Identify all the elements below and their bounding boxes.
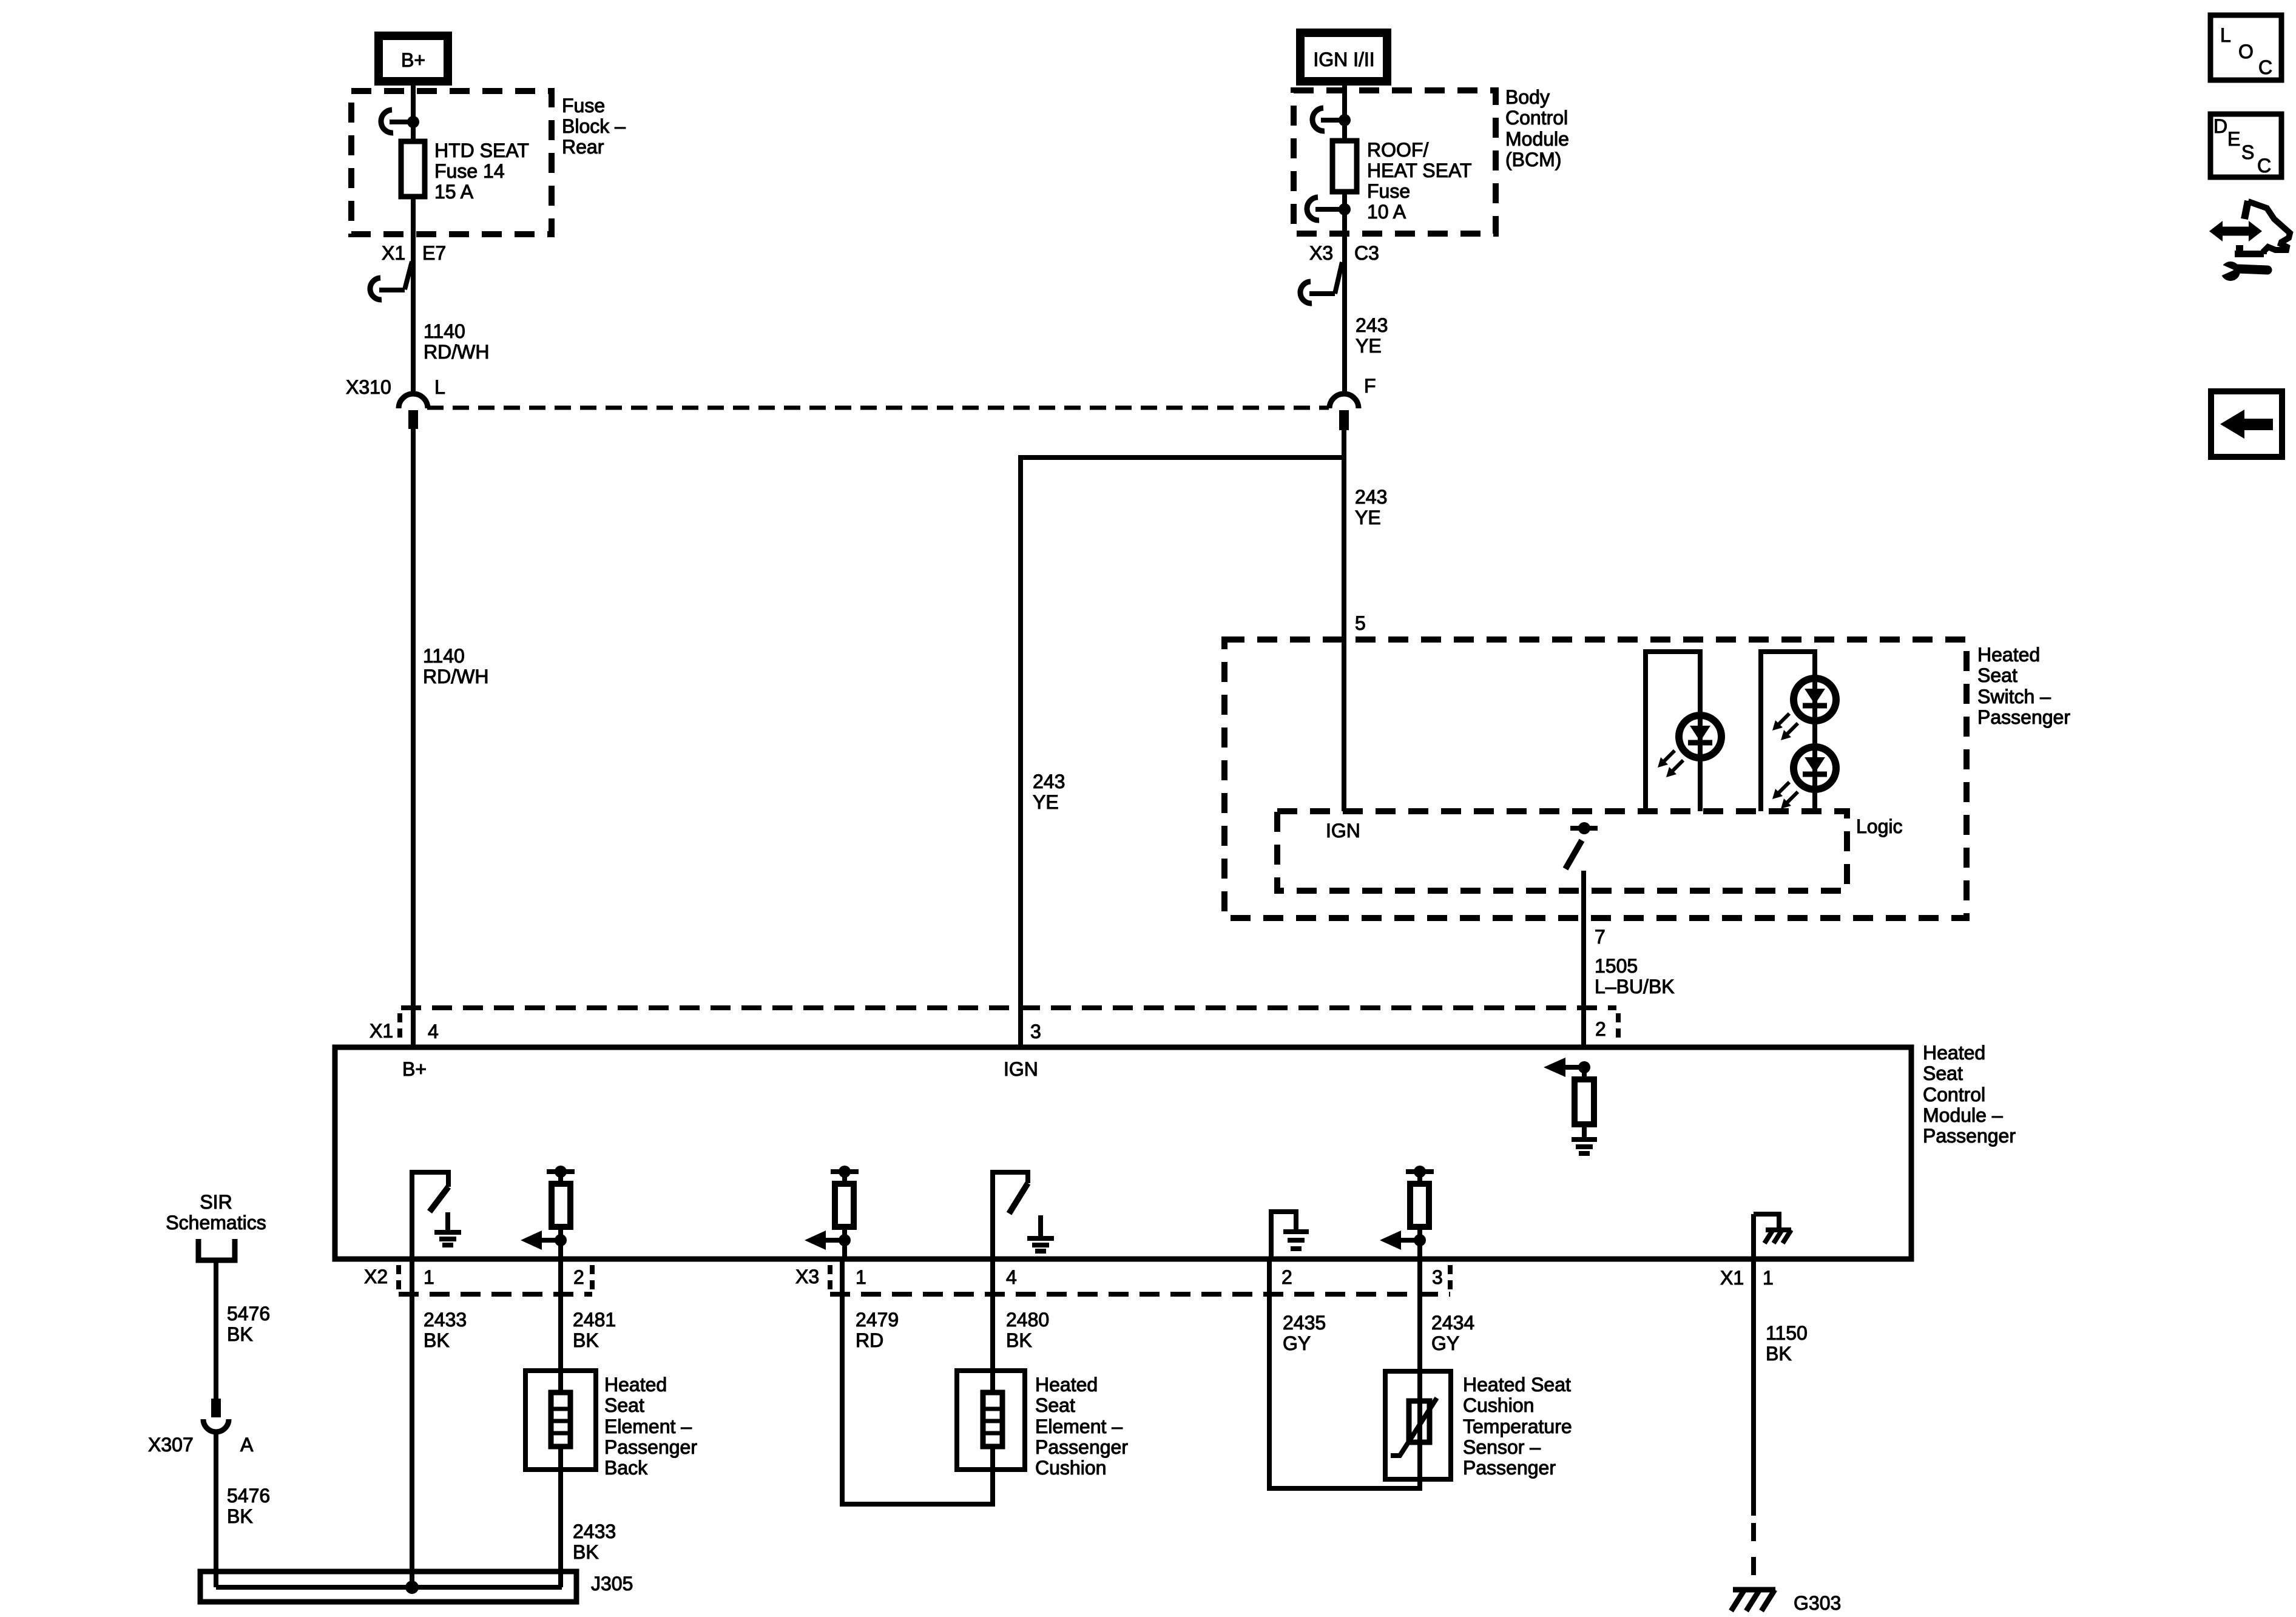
svg-text:4: 4 xyxy=(428,1021,439,1042)
svg-text:2433: 2433 xyxy=(573,1521,616,1542)
connector lead hook in fuse block xyxy=(381,110,419,133)
svg-text:Element –: Element – xyxy=(1035,1416,1123,1437)
heated seat element passenger cushion box xyxy=(957,1371,1025,1470)
svg-text:2: 2 xyxy=(1595,1018,1606,1040)
label Fuse Block - Rear xyxy=(562,95,626,158)
wire B+ to fuse block xyxy=(411,81,416,141)
svg-text:Body: Body xyxy=(1505,86,1550,108)
svg-text:HEAT SEAT: HEAT SEAT xyxy=(1367,160,1471,181)
svg-text:SIR: SIR xyxy=(200,1191,232,1213)
label Heated Seat Element - Passenger Back xyxy=(604,1374,697,1479)
wire 5476 BK upper xyxy=(214,1260,218,1399)
icon box DESC xyxy=(2210,114,2281,177)
svg-text:IGN: IGN xyxy=(1004,1058,1038,1080)
svg-text:1140: 1140 xyxy=(423,645,465,667)
svg-text:Seat: Seat xyxy=(1977,664,2017,686)
SIR bracket xyxy=(198,1239,235,1260)
wire 2480 BK xyxy=(990,1259,995,1371)
svg-text:Passenger: Passenger xyxy=(1463,1457,1556,1479)
connector X3 separator and bracket xyxy=(830,1265,1450,1294)
svg-text:1150: 1150 xyxy=(1766,1322,1808,1344)
wire label 2435 GY xyxy=(1283,1312,1326,1354)
svg-text:X1: X1 xyxy=(370,1020,393,1042)
svg-text:15 A: 15 A xyxy=(434,181,474,203)
svg-text:243: 243 xyxy=(1033,771,1065,792)
wire 1140 RD/WH down to module xyxy=(411,429,416,1045)
svg-text:2433: 2433 xyxy=(424,1309,467,1331)
svg-text:BK: BK xyxy=(227,1505,253,1527)
fuse ROOF/HEAT SEAT Fuse 10A xyxy=(1332,139,1471,223)
connector X310 L xyxy=(346,376,445,429)
connector terminal F xyxy=(1329,375,1376,430)
svg-text:Passenger: Passenger xyxy=(1923,1125,2016,1147)
icon box back-arrow xyxy=(2211,391,2282,457)
svg-text:L: L xyxy=(2220,24,2231,46)
svg-text:Control: Control xyxy=(1923,1084,1985,1106)
svg-text:BK: BK xyxy=(1766,1343,1792,1365)
svg-text:(BCM): (BCM) xyxy=(1505,149,1561,170)
svg-text:X3: X3 xyxy=(1309,242,1333,264)
logic dashed box xyxy=(1277,811,1847,891)
internal resistor to ground at pin 2 xyxy=(1544,1058,1597,1153)
svg-text:B+: B+ xyxy=(401,49,425,71)
svg-text:IGN I/II: IGN I/II xyxy=(1313,49,1374,70)
svg-text:S: S xyxy=(2241,141,2254,163)
label SIR Schematics xyxy=(166,1191,266,1234)
svg-text:5476: 5476 xyxy=(227,1303,270,1325)
svg-text:Passenger: Passenger xyxy=(1035,1436,1128,1458)
svg-text:Sensor –: Sensor – xyxy=(1463,1436,1541,1458)
svg-text:Passenger: Passenger xyxy=(1977,706,2070,728)
svg-text:2479: 2479 xyxy=(856,1309,899,1331)
svg-text:Fuse 14: Fuse 14 xyxy=(434,160,505,182)
wire element back to J305 xyxy=(558,1470,563,1587)
svg-text:2480: 2480 xyxy=(1006,1309,1049,1331)
pin row labels X1 4 3 2 xyxy=(370,1018,1606,1042)
wire pin5 inside switch xyxy=(1342,640,1346,811)
svg-text:Seat: Seat xyxy=(1923,1062,1963,1084)
svg-text:10 A: 10 A xyxy=(1367,201,1406,223)
svg-text:1: 1 xyxy=(424,1266,434,1288)
svg-text:YE: YE xyxy=(1356,335,1382,357)
internal switch to ground at pin X3-4 xyxy=(990,1170,1054,1259)
svg-text:Fuse: Fuse xyxy=(562,95,605,116)
svg-text:4: 4 xyxy=(1006,1266,1017,1288)
svg-text:Heated: Heated xyxy=(604,1374,667,1396)
wire 2481 BK xyxy=(558,1259,563,1371)
svg-text:1505: 1505 xyxy=(1595,955,1638,977)
wire 2434 GY xyxy=(1417,1259,1422,1371)
label Heated Seat Control Module - Passenger xyxy=(1923,1042,2016,1147)
wire label 2434 GY xyxy=(1431,1312,1474,1354)
wire label 243 YE upper xyxy=(1356,314,1388,357)
heated seat switch dashed box xyxy=(1224,640,1967,918)
BCM dashed box xyxy=(1294,90,1496,234)
svg-text:X3: X3 xyxy=(795,1266,819,1288)
svg-text:BK: BK xyxy=(1006,1329,1032,1351)
svg-text:F: F xyxy=(1364,375,1376,397)
svg-text:L–BU/BK: L–BU/BK xyxy=(1595,976,1675,998)
svg-text:B+: B+ xyxy=(402,1058,427,1080)
svg-text:Heated: Heated xyxy=(1035,1374,1098,1396)
svg-text:X310: X310 xyxy=(346,376,391,398)
pin label row X1 xyxy=(1720,1267,1774,1289)
wire 2479 RD xyxy=(840,1259,845,1504)
svg-text:3: 3 xyxy=(1030,1021,1041,1042)
svg-text:BK: BK xyxy=(573,1329,599,1351)
wire label 1140 RD/WH xyxy=(424,320,489,363)
wire label 1505 L-BU/BK xyxy=(1595,955,1675,998)
heated seat control module box xyxy=(335,1047,1911,1259)
svg-text:Heated: Heated xyxy=(1923,1042,1985,1064)
internal resistor with arrow at pin X3-1 xyxy=(805,1166,859,1259)
pin label row X2 xyxy=(364,1266,584,1288)
wire switch to pin 7 and module pin 2 xyxy=(1581,871,1586,1045)
wire element cushion loop to pin 1 xyxy=(842,1470,993,1504)
wire label 2479 RD xyxy=(856,1309,899,1351)
svg-text:X1: X1 xyxy=(382,242,405,264)
svg-text:Back: Back xyxy=(604,1457,648,1479)
svg-text:Logic: Logic xyxy=(1856,815,1903,837)
svg-text:Heated: Heated xyxy=(1977,644,2040,666)
icon box LOC xyxy=(2210,15,2281,80)
svg-text:Module: Module xyxy=(1505,128,1569,150)
wire label 2480 BK xyxy=(1006,1309,1049,1351)
svg-text:ROOF/: ROOF/ xyxy=(1367,139,1428,161)
fuse block dashed box Fuse Block - Rear xyxy=(351,91,552,234)
svg-text:Control: Control xyxy=(1505,107,1568,129)
svg-text:2481: 2481 xyxy=(573,1309,616,1331)
svg-text:Module –: Module – xyxy=(1923,1104,2003,1126)
svg-text:Block –: Block – xyxy=(562,115,626,137)
svg-text:O: O xyxy=(2238,41,2254,62)
heated seat element passenger back box xyxy=(525,1371,596,1470)
power node IGN I/II xyxy=(1300,33,1387,81)
svg-text:X2: X2 xyxy=(364,1266,388,1288)
svg-text:G303: G303 xyxy=(1794,1592,1841,1614)
connector X1 E7 xyxy=(370,242,446,300)
wire 243 YE from F down to switch xyxy=(1342,430,1346,640)
internal resistor with arrow at pin 2434 xyxy=(1380,1166,1434,1259)
svg-text:2: 2 xyxy=(573,1266,584,1288)
connector X307 A xyxy=(148,1399,254,1456)
svg-text:1140: 1140 xyxy=(424,320,465,342)
label Heated Seat Cushion Temperature Sensor - Passenger xyxy=(1463,1374,1572,1479)
wire label 2433 BK xyxy=(424,1309,467,1351)
wire branch to pin 3 xyxy=(1021,455,1342,1045)
wire 2433 BK xyxy=(410,1259,414,1587)
switch contact in logic box xyxy=(1565,822,1598,869)
svg-text:HTD SEAT: HTD SEAT xyxy=(434,140,529,161)
wire IGN to BCM xyxy=(1342,81,1347,141)
svg-text:YE: YE xyxy=(1355,507,1381,528)
wire label 5476 BK lower xyxy=(227,1485,270,1527)
connector X2 separator and bracket xyxy=(399,1265,592,1294)
svg-text:Switch –: Switch – xyxy=(1977,686,2051,707)
svg-text:243: 243 xyxy=(1355,486,1387,508)
label Body Control Module (BCM) xyxy=(1505,86,1569,170)
svg-text:X1: X1 xyxy=(1720,1267,1744,1289)
svg-text:X307: X307 xyxy=(148,1434,194,1456)
internal chassis ground at pin X1-1 xyxy=(1754,1212,1791,1259)
wire label 243 YE middle xyxy=(1033,771,1065,813)
svg-text:Heated Seat: Heated Seat xyxy=(1463,1374,1571,1396)
svg-text:Cushion: Cushion xyxy=(1035,1457,1106,1479)
LED indicator 3 xyxy=(1772,747,1836,809)
wire label 5476 BK upper xyxy=(227,1303,270,1345)
svg-text:Cushion: Cushion xyxy=(1463,1394,1534,1416)
svg-text:Seat: Seat xyxy=(604,1394,644,1416)
svg-text:Passenger: Passenger xyxy=(604,1436,697,1458)
wire label 1150 BK xyxy=(1766,1322,1808,1365)
svg-text:2: 2 xyxy=(1281,1266,1292,1288)
svg-text:IGN: IGN xyxy=(1326,820,1360,842)
svg-text:7: 7 xyxy=(1595,926,1606,948)
heated seat cushion temperature sensor box xyxy=(1385,1371,1451,1479)
svg-text:L: L xyxy=(434,376,445,398)
wire 2435 GY xyxy=(1267,1259,1272,1488)
svg-text:Schematics: Schematics xyxy=(166,1212,266,1234)
wire fuse to box edge xyxy=(411,197,416,394)
svg-text:Element –: Element – xyxy=(604,1416,692,1437)
svg-text:GY: GY xyxy=(1431,1332,1459,1354)
svg-text:BK: BK xyxy=(424,1329,450,1351)
svg-text:RD/WH: RD/WH xyxy=(424,341,489,363)
icon compare arrow xyxy=(2209,201,2290,257)
svg-text:5476: 5476 xyxy=(227,1485,270,1507)
harness dashed line X310 to F xyxy=(427,406,1329,410)
svg-text:5: 5 xyxy=(1355,612,1366,634)
LED indicator 2 xyxy=(1772,678,1836,740)
splice J305 xyxy=(200,1571,576,1602)
svg-text:2434: 2434 xyxy=(1431,1312,1474,1334)
icon wrench xyxy=(2213,261,2267,281)
wire fuse to box edge xyxy=(1342,192,1347,394)
wire 1150 BK xyxy=(1751,1259,1756,1516)
connector X1 separator top xyxy=(397,1013,402,1040)
label Heated Seat Element - Passenger Cushion xyxy=(1035,1374,1128,1479)
wire label 1140 RD/WH lower xyxy=(423,645,488,687)
svg-text:Seat: Seat xyxy=(1035,1394,1075,1416)
LED indicator 1 xyxy=(1658,715,1721,777)
svg-text:C3: C3 xyxy=(1354,242,1379,264)
svg-text:E7: E7 xyxy=(422,242,446,264)
svg-text:BK: BK xyxy=(227,1323,253,1345)
svg-text:C: C xyxy=(2257,155,2271,177)
wire label 2481 BK xyxy=(573,1309,616,1351)
wire 5476 BK lower xyxy=(214,1432,218,1587)
svg-text:1: 1 xyxy=(856,1266,866,1288)
connector lead hook upper in BCM xyxy=(1312,108,1351,131)
label Heated Seat Switch - Passenger xyxy=(1977,644,2070,728)
dashed wire to G303 xyxy=(1751,1523,1756,1586)
svg-text:A: A xyxy=(240,1434,254,1456)
svg-text:Fuse: Fuse xyxy=(1367,180,1410,202)
connector lead hook lower in BCM xyxy=(1307,197,1351,220)
connector X3 C3 xyxy=(1300,242,1379,303)
svg-text:Rear: Rear xyxy=(562,136,604,158)
svg-text:YE: YE xyxy=(1033,791,1059,813)
svg-text:RD: RD xyxy=(856,1329,883,1351)
internal switch to ground at pin X2-1 xyxy=(410,1170,461,1259)
svg-text:3: 3 xyxy=(1432,1266,1443,1288)
svg-text:E: E xyxy=(2227,128,2240,150)
svg-text:J305: J305 xyxy=(591,1573,633,1595)
LED branch 1 wires xyxy=(1646,652,1700,811)
svg-text:BK: BK xyxy=(573,1541,599,1563)
svg-text:1: 1 xyxy=(1763,1267,1774,1289)
ground G303 xyxy=(1731,1590,1775,1611)
svg-text:D: D xyxy=(2213,115,2227,137)
svg-text:Temperature: Temperature xyxy=(1463,1416,1572,1437)
svg-text:GY: GY xyxy=(1283,1332,1311,1354)
wire label 2433 BK lower xyxy=(573,1521,616,1563)
svg-text:2435: 2435 xyxy=(1283,1312,1326,1334)
svg-text:RD/WH: RD/WH xyxy=(423,666,488,687)
wire sensor loop to pin 2 xyxy=(1269,1479,1420,1488)
power node B+ xyxy=(379,36,448,81)
internal resistor with arrow at pin X2-2 xyxy=(521,1166,575,1259)
wire label 243 YE right xyxy=(1355,486,1387,528)
internal ground flag at pin 2435 xyxy=(1269,1209,1309,1259)
svg-text:243: 243 xyxy=(1356,314,1388,336)
pin label row X3 xyxy=(795,1266,1443,1288)
pin 2 separator top right xyxy=(1616,1013,1621,1040)
fuse HTD SEAT Fuse 14 15A xyxy=(401,140,529,203)
LED branch 2 wires xyxy=(1761,652,1815,811)
harness dashed line above module xyxy=(401,1005,1616,1010)
svg-text:C: C xyxy=(2258,56,2272,78)
